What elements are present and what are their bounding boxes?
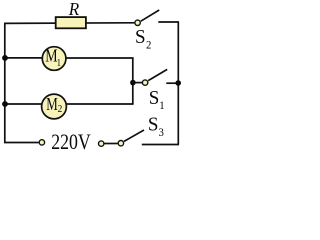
wire S1 dot to pivot [133, 82, 142, 84]
motor M2 [42, 94, 67, 119]
wire left vertical rail [4, 23, 6, 142]
node junction dot left rail / M2 row [2, 101, 8, 107]
wire bottom left [4, 142, 39, 144]
svg-text:S: S [149, 86, 160, 109]
svg-text:M: M [46, 95, 58, 115]
svg-text:1: 1 [159, 100, 165, 113]
wire right vertical rail [177, 22, 179, 145]
svg-text:1: 1 [57, 57, 61, 69]
wire bottom right [142, 144, 179, 146]
svg-text:S: S [135, 25, 146, 48]
switch S3 lever [124, 130, 144, 141]
switch S1 pivot terminal [142, 80, 147, 85]
source terminal right [99, 141, 104, 146]
wire top horizontal [4, 22, 134, 25]
svg-text:220V: 220V [51, 130, 91, 152]
wire between source terminal and S3 pivot [104, 143, 117, 145]
svg-text:3: 3 [159, 127, 165, 140]
switch S3 pivot terminal [118, 141, 123, 146]
switch S1 lever [148, 69, 167, 80]
wire M2 row left [5, 103, 42, 105]
svg-text:2: 2 [146, 39, 152, 52]
svg-text:2: 2 [58, 104, 63, 116]
svg-text:R: R [68, 0, 80, 19]
switch S2 lever [141, 10, 159, 21]
svg-text:S: S [148, 113, 159, 136]
svg-text:M: M [45, 47, 57, 66]
wire M2 row right [66, 103, 133, 105]
node junction dot left rail / M1 row [2, 55, 8, 61]
source terminal left [39, 140, 44, 145]
motor M1 [42, 47, 66, 71]
wire M1 row left [5, 57, 43, 59]
resistor R body [56, 17, 86, 28]
node junction dot mid vertical / S1 branch [130, 80, 136, 86]
wire middle vertical [132, 58, 134, 104]
wire M1 row right [66, 57, 134, 59]
switch S2 pivot terminal [135, 20, 140, 25]
wire top-right stub to rail [158, 21, 179, 23]
wire S1 stub to right rail [166, 82, 179, 84]
node junction dot right rail / S1 branch [175, 80, 181, 86]
